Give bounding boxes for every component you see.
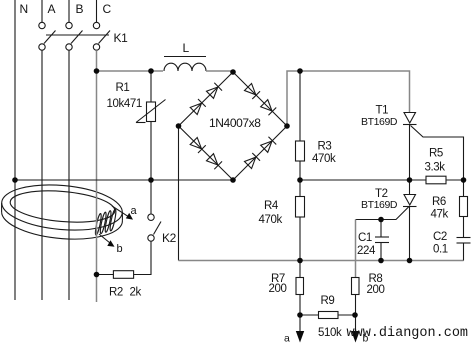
inductor L label [164,41,206,57]
resistor R4 body [296,197,305,218]
svg-text:47k: 47k [431,209,449,221]
wire bottom DC- rail [179,260,464,262]
capacitor C2 plates [457,238,471,244]
svg-text:T1: T1 [376,105,389,117]
junction R7 R9 a [297,312,303,318]
wire T1 cathode down [409,125,411,195]
junction bridge bottom vertex [230,177,236,183]
wire R7 bottom [299,295,301,316]
wire R4 bottom [299,217,301,261]
wire R9 left [300,314,319,316]
switch K1 pole B blade [71,31,83,44]
bridge rectifier frame [179,72,288,180]
wire R2 to C line [97,274,114,276]
wire gate bus y180 [300,179,426,181]
svg-text:2k: 2k [130,287,142,299]
svg-text:10k471: 10k471 [107,98,142,110]
capacitor C1 top lead [380,220,382,238]
svg-text:R9: R9 [321,295,335,307]
resistor R8 body [352,278,360,295]
T2 gate wire [356,207,410,220]
resistor R5 body [426,176,446,184]
junction R2 C line [94,272,100,278]
wire R6 leads [463,180,465,197]
svg-text:R5: R5 [429,148,443,160]
svg-text:K2: K2 [162,231,177,245]
wire R6 to C2 [463,217,465,238]
wire K2 to R2 [134,241,151,274]
svg-text:C2: C2 [433,231,447,243]
varistor R1 lead top [150,71,152,102]
bridge diode D8 [260,137,276,153]
resistor R9 body [319,312,339,319]
bridge diode D5 [190,137,206,153]
output a arrow [296,315,304,343]
switch K2 blade [154,222,162,235]
junction neutral rail N [12,177,18,183]
wire C line bottom (phase feed) [96,50,98,302]
output b arrow [351,315,359,343]
switch K1 pole C blade [99,31,111,44]
junction C1 rail [378,258,384,264]
capacitor C1 bottom lead [380,243,382,261]
wire gate node down to R8 [355,220,357,278]
junction DC+ R3 [297,68,303,74]
wire R3 to node [299,161,301,180]
wire top bus C to L [97,70,164,72]
switch K2 lead top [150,180,152,214]
wire A line top [41,0,43,22]
junction T2 gate C1 [378,217,384,223]
svg-text:N: N [20,2,28,16]
junction T2 cathode rail [407,258,413,264]
svg-text:1N4007x8: 1N4007x8 [209,116,261,130]
resistor R7 body [296,278,304,295]
svg-text:R6: R6 [432,196,446,208]
switch K1 link bar [46,34,109,36]
junction R1 top [148,68,154,74]
secondary terminal b lead [99,234,115,247]
wire bridge right vertex up and top DC+ bus [287,71,410,126]
svg-text:www.diangon.com: www.diangon.com [347,326,469,341]
switch K1 pole A contacts [39,22,45,28]
svg-text:3.3k: 3.3k [425,162,446,174]
svg-text:470k: 470k [259,214,283,226]
junction R3 R4 gate bus [297,177,303,183]
T1 gate wire [411,126,464,181]
bridge diode D2 [206,83,222,99]
wire B line bottom [68,50,70,300]
thyristor T1 [403,113,417,125]
svg-text:R4: R4 [264,200,279,212]
resistor R6 body [460,197,468,217]
svg-text:B: B [76,2,84,16]
wire bridge left vertex down [178,126,180,261]
svg-text:200: 200 [367,284,385,296]
svg-text:C: C [103,2,112,16]
svg-text:K1: K1 [114,31,129,45]
svg-text:R2: R2 [109,287,123,299]
junction bridge left vertex [176,123,182,129]
svg-text:224: 224 [357,245,376,257]
thyristor T2 [403,195,417,207]
svg-text:510k: 510k [318,327,342,339]
toroid secondary winding [94,209,117,235]
resistor R2 body [113,271,133,279]
wire C line top [96,0,98,22]
junction bridge right vertex [284,123,290,129]
wire neutral rail to bridge bottom [15,179,233,181]
capacitor C1 plates [375,237,389,243]
svg-text:R3: R3 [318,141,332,153]
wire bridge DC+ to R3 [299,71,301,141]
toroid current transformer core [0,180,124,239]
resistor R3 body [296,141,305,161]
junction R4 R7 rail [297,258,303,264]
wire R5 right [446,179,464,181]
bridge diode D6 [206,153,222,169]
svg-text:BT169D: BT169D [361,199,398,211]
wire R9 right [338,314,356,316]
wire A line bottom [41,50,43,300]
bridge diode D7 [244,153,260,169]
svg-text:a: a [284,333,290,345]
bridge diode D4 [260,99,276,115]
switch K2 contacts [148,214,154,241]
switch K1 pole A blade [44,31,56,44]
junction R5 R6 gate [461,177,467,183]
svg-text:R1: R1 [116,82,130,94]
switch K1 pole C contacts [93,22,99,28]
varistor R1 body [136,100,166,123]
wire R8 bottom [355,295,357,316]
svg-text:470k: 470k [312,153,336,165]
bridge diode D1 [190,99,206,115]
wire B line top [68,0,70,22]
svg-text:L: L [183,41,190,55]
wire L to bridge top [206,70,233,72]
bridge diode D3 [244,83,260,99]
varistor R1 lead bottom [150,122,152,181]
svg-text:A: A [48,2,56,16]
svg-text:C1: C1 [358,232,372,244]
secondary terminal a lead [112,206,133,220]
switch K1 pole B contacts [66,22,72,28]
junction R8 R9 b [352,312,358,318]
svg-text:b: b [117,243,123,255]
wire R4 leads [299,180,301,197]
junction bridge top vertex [230,69,236,75]
junction T1 cathode bus [407,177,413,183]
wire N line [14,0,16,300]
junction R1 K2 rail [148,177,154,183]
svg-text:0.1: 0.1 [433,244,448,256]
wire T2 cathode down [409,207,411,261]
capacitor C2 bottom lead [463,243,465,261]
svg-text:200: 200 [269,283,287,295]
wire R7 leads [299,261,301,278]
junction C phase top [94,68,100,74]
inductor L [164,63,206,71]
svg-text:BT169D: BT169D [361,116,398,128]
